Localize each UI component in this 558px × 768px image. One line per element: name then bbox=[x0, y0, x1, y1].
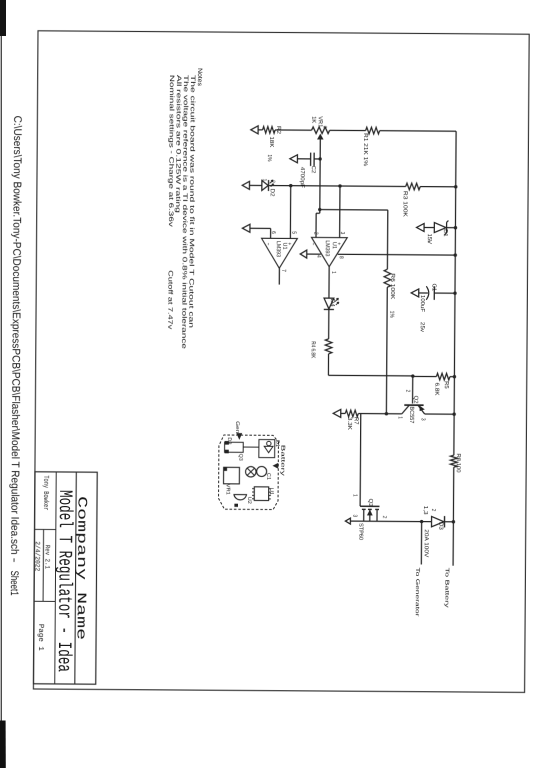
svg-text:-: - bbox=[265, 242, 271, 245]
svg-text:Q3: Q3 bbox=[238, 454, 244, 461]
svg-text:R2: R2 bbox=[275, 126, 282, 134]
svg-text:R4 6.8K: R4 6.8K bbox=[310, 341, 317, 358]
svg-text:C1: C1 bbox=[430, 284, 437, 292]
svg-text:3: 3 bbox=[339, 232, 346, 235]
svg-text:2: 2 bbox=[269, 180, 276, 183]
svg-text:R5: R5 bbox=[443, 381, 449, 389]
svg-text:2: 2 bbox=[312, 232, 319, 235]
svg-text:VR1: VR1 bbox=[224, 484, 230, 495]
svg-text:To Generator: To Generator bbox=[414, 567, 420, 616]
svg-text:2/4/2022: 2/4/2022 bbox=[33, 541, 40, 571]
svg-text:D4: D4 bbox=[329, 299, 335, 308]
svg-text:1%: 1% bbox=[388, 311, 395, 318]
svg-text:1: 1 bbox=[330, 271, 336, 274]
svg-text:8: 8 bbox=[338, 256, 345, 259]
svg-text:Nominal settings - Charge at 6: Nominal settings - Charge at 6.36v bbox=[167, 75, 175, 228]
svg-text:100uF: 100uF bbox=[419, 295, 426, 313]
svg-text:Model T Regulator - Idea: Model T Regulator - Idea bbox=[53, 490, 76, 672]
svg-text:2: 2 bbox=[404, 390, 411, 393]
svg-text:LM393: LM393 bbox=[324, 240, 331, 256]
svg-text:1: 1 bbox=[351, 494, 357, 497]
svg-text:D3: D3 bbox=[226, 437, 232, 444]
svg-text:Rev 2.1: Rev 2.1 bbox=[44, 545, 51, 569]
svg-text:R7: R7 bbox=[352, 417, 358, 425]
svg-text:Q2: Q2 bbox=[412, 396, 419, 404]
svg-text:Q3: Q3 bbox=[367, 499, 374, 507]
svg-text:+: + bbox=[425, 240, 431, 243]
svg-text:R3 100K: R3 100K bbox=[401, 191, 408, 217]
svg-text:2: 2 bbox=[321, 126, 327, 129]
svg-text:20A 100V: 20A 100V bbox=[422, 529, 429, 557]
svg-text:Notes: Notes bbox=[196, 68, 203, 86]
svg-text:18K: 18K bbox=[268, 136, 275, 147]
svg-text:3.3K: 3.3K bbox=[346, 417, 353, 430]
svg-text:D1: D1 bbox=[442, 229, 448, 237]
svg-text:LM393: LM393 bbox=[275, 241, 282, 257]
svg-text:1: 1 bbox=[397, 416, 403, 419]
svg-text:Gen: Gen bbox=[234, 421, 240, 433]
svg-text:Battery: Battery bbox=[279, 445, 285, 477]
svg-text:Tony Bowker: Tony Bowker bbox=[41, 475, 50, 510]
svg-text:Sheet1: Sheet1 bbox=[8, 571, 20, 596]
svg-text:7: 7 bbox=[280, 269, 286, 272]
svg-text:-: - bbox=[8, 558, 20, 564]
svg-text:Page 1: Page 1 bbox=[36, 624, 44, 652]
svg-text:25v: 25v bbox=[419, 322, 426, 332]
svg-text:BC557: BC557 bbox=[408, 406, 415, 423]
svg-text:2: 2 bbox=[381, 516, 388, 519]
svg-text:3: 3 bbox=[419, 418, 426, 421]
svg-text:C1: C1 bbox=[265, 473, 271, 480]
svg-text:3: 3 bbox=[351, 514, 358, 517]
svg-text:6: 6 bbox=[270, 231, 277, 234]
svg-text:C2: C2 bbox=[310, 166, 317, 174]
svg-text:R1 21K 1%: R1 21K 1% bbox=[362, 133, 369, 166]
svg-text:D1: D1 bbox=[274, 440, 280, 447]
svg-text:Cutoff at 7.47v: Cutoff at 7.47v bbox=[166, 270, 173, 330]
svg-text:-: - bbox=[310, 242, 316, 245]
svg-text:U1: U1 bbox=[268, 488, 274, 495]
svg-text:D3: D3 bbox=[437, 522, 444, 530]
svg-text:R8 100: R8 100 bbox=[455, 454, 462, 473]
svg-text:6.8K: 6.8K bbox=[433, 383, 440, 396]
svg-text:1K: 1K bbox=[310, 116, 316, 123]
svg-text:R6 100K: R6 100K bbox=[389, 273, 396, 299]
svg-text:1: 1 bbox=[261, 179, 267, 182]
svg-text:2: 2 bbox=[430, 509, 437, 512]
svg-text:U2: U2 bbox=[246, 497, 252, 504]
svg-text:D2: D2 bbox=[269, 189, 276, 197]
svg-text:STP60: STP60 bbox=[357, 523, 364, 540]
svg-text:To Battery: To Battery bbox=[443, 568, 449, 609]
svg-text:4700pF: 4700pF bbox=[299, 167, 306, 189]
svg-text:1,3: 1,3 bbox=[422, 506, 429, 515]
svg-text:5: 5 bbox=[290, 231, 296, 234]
svg-text:1%: 1% bbox=[266, 154, 273, 161]
